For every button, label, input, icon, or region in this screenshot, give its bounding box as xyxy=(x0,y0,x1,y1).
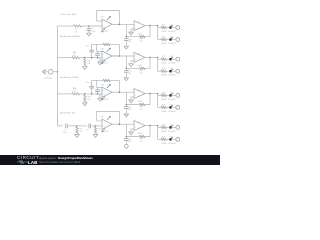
svg-text:R16: R16 xyxy=(162,37,165,39)
wire feedback rail OA5 xyxy=(92,80,120,92)
footer text xyxy=(39,156,93,160)
svg-text:-1.65/1.65V: -1.65/1.65V xyxy=(44,78,53,80)
ground (R13) xyxy=(75,135,80,138)
svg-text:R15: R15 xyxy=(162,25,165,27)
capacitor C2a feedback xyxy=(86,44,94,58)
svg-text:100kΩ: 100kΩ xyxy=(161,63,167,65)
svg-text:R21: R21 xyxy=(162,124,165,126)
node A1 xyxy=(88,25,90,27)
resistor R17 output load xyxy=(161,56,167,64)
wire output OA2 xyxy=(145,25,158,27)
svg-text:C4g: C4g xyxy=(128,139,131,141)
svg-text:R1: R1 xyxy=(75,29,77,31)
wire feed row 4 xyxy=(58,125,64,127)
ground (noninverting OA3) xyxy=(98,58,103,65)
resistor R2g feedback xyxy=(140,67,146,74)
terminal row 4b xyxy=(176,138,180,142)
svg-text:LS8: LS8 xyxy=(170,136,173,138)
node row 3 xyxy=(84,93,86,95)
capacitor C3g polarized xyxy=(124,104,131,111)
resistor R22 output load xyxy=(161,136,167,144)
svg-text:R3b: R3b xyxy=(87,97,90,99)
svg-text:LS7: LS7 xyxy=(170,124,173,126)
svg-text:+: + xyxy=(103,58,104,60)
wire xyxy=(96,125,103,127)
op-amp OA8 xyxy=(134,121,145,136)
capacitor C2g polarized xyxy=(124,68,131,75)
svg-text:−: − xyxy=(135,24,136,26)
wire feedback loop OA4 xyxy=(126,56,151,68)
svg-text:C2a: C2a xyxy=(86,46,89,48)
wire xyxy=(166,39,169,41)
wire xyxy=(96,80,98,87)
resistor R16 output load xyxy=(161,37,167,45)
svg-text:100kΩ: 100kΩ xyxy=(161,143,167,145)
resistor R3b to ground xyxy=(84,95,91,102)
speaker LS4 xyxy=(168,68,176,76)
wire xyxy=(77,125,87,127)
svg-text:1=100kΩ: 1=100kΩ xyxy=(168,143,176,145)
wire xyxy=(172,126,176,128)
svg-text:−: − xyxy=(103,54,104,56)
resistor R2b to ground xyxy=(84,59,91,66)
svg-text:+: + xyxy=(135,95,136,97)
wire output junction row 4 xyxy=(157,125,161,140)
wire xyxy=(82,25,103,27)
svg-text:1μF: 1μF xyxy=(128,141,131,143)
wire xyxy=(172,39,176,41)
node row 4 b xyxy=(95,125,97,127)
wire feedback rail OA3 xyxy=(92,44,120,56)
op-amp OA6 xyxy=(134,89,145,104)
wire xyxy=(172,94,176,96)
wire feed row 1 xyxy=(58,25,74,27)
wire xyxy=(80,57,102,59)
ground (noninverting OA4) xyxy=(129,61,134,67)
wire feedback loop OA7 xyxy=(97,112,120,125)
svg-text:+: + xyxy=(103,26,104,28)
svg-text:C2g: C2g xyxy=(128,71,131,73)
voltage source VB row 4 xyxy=(124,140,128,149)
wire output OA1 to OA2 xyxy=(112,23,134,25)
wire feedback loop OA8 xyxy=(126,124,151,136)
svg-text:0.5μF: 0.5μF xyxy=(91,31,95,33)
capacitor C1g polarized xyxy=(124,36,131,43)
svg-text:LS6: LS6 xyxy=(170,104,173,106)
svg-text:+: + xyxy=(135,127,136,129)
svg-text:100kΩ: 100kΩ xyxy=(161,75,167,77)
resistor R14 to ground xyxy=(94,127,101,134)
wire feedback loop OA2 xyxy=(126,24,151,36)
wire feedback loop OA6 xyxy=(126,92,151,104)
resistor R19 output load xyxy=(161,92,167,100)
op-amp OA4 xyxy=(134,52,145,67)
svg-text:R13: R13 xyxy=(80,128,83,130)
wire xyxy=(172,27,176,29)
resistor R4 input xyxy=(72,52,80,59)
svg-text:C7: C7 xyxy=(64,130,66,132)
wire inverting input row 3 xyxy=(97,87,102,89)
svg-text:−: − xyxy=(135,92,136,94)
svg-text:R1g: R1g xyxy=(140,38,143,40)
wire xyxy=(172,138,176,140)
svg-text:100kΩ: 100kΩ xyxy=(161,31,167,33)
speaker LS3 xyxy=(168,56,176,64)
speaker LS2 xyxy=(168,37,176,45)
speaker LS6 xyxy=(168,104,176,112)
wire output OA8 xyxy=(145,125,158,127)
svg-text:R3g: R3g xyxy=(140,106,143,108)
speaker LS8 xyxy=(168,136,176,144)
svg-text:V1: V1 xyxy=(47,76,49,78)
svg-text:100kΩ: 100kΩ xyxy=(161,99,167,101)
wire xyxy=(166,27,169,29)
voltage source V1 xyxy=(44,69,59,80)
svg-text:1=100kΩ: 1=100kΩ xyxy=(168,131,176,133)
wire xyxy=(166,94,169,96)
wire input bus xyxy=(57,26,59,126)
svg-text:1μF: 1μF xyxy=(128,41,131,43)
wire xyxy=(96,44,98,51)
svg-text:−: − xyxy=(103,23,104,25)
svg-text:R22: R22 xyxy=(162,136,165,138)
svg-text:1=100kΩ: 1=100kΩ xyxy=(168,43,176,45)
svg-text:−: − xyxy=(135,56,136,58)
svg-text:1=100kΩ: 1=100kΩ xyxy=(168,111,176,113)
wire xyxy=(172,106,176,108)
svg-text:R20: R20 xyxy=(162,104,165,106)
resistor R1g feedback xyxy=(140,35,146,42)
svg-text:0.1μF: 0.1μF xyxy=(63,132,67,134)
wire output OA7 to OA8 xyxy=(112,123,134,125)
wire xyxy=(172,70,176,72)
resistor R8 input xyxy=(72,88,80,95)
op-amp OA5 xyxy=(101,84,113,101)
wire feed row 2 xyxy=(58,57,72,59)
ground (R2b) xyxy=(83,67,88,70)
ground (C1g) xyxy=(124,41,129,50)
svg-text:R4g: R4g xyxy=(140,138,143,140)
ground (R3b) xyxy=(83,103,88,106)
capacitor C3b to inverting input xyxy=(95,88,102,95)
svg-text:−: − xyxy=(103,122,104,124)
svg-text:100kΩ: 100kΩ xyxy=(161,131,167,133)
resistor R18 output load xyxy=(161,68,167,76)
svg-text:C1: C1 xyxy=(91,28,93,30)
terminal row 2b xyxy=(176,69,180,73)
ground (C3g) xyxy=(124,108,129,117)
svg-text:+: + xyxy=(135,27,136,29)
svg-text:+: + xyxy=(103,126,104,128)
wire output OA4 xyxy=(145,56,158,58)
wire feedback loop OA1 xyxy=(97,11,120,25)
svg-text:1μF: 1μF xyxy=(128,73,131,75)
terminal row 4a xyxy=(176,126,180,130)
wire xyxy=(172,58,176,60)
wire xyxy=(80,93,102,95)
svg-text:LS2: LS2 xyxy=(170,37,173,39)
svg-text:+: + xyxy=(103,94,104,96)
resistor R20 output load xyxy=(161,104,167,112)
terminal row 3a xyxy=(176,94,180,98)
wire xyxy=(166,70,169,72)
capacitor C8 series xyxy=(86,124,95,132)
svg-text:R2g: R2g xyxy=(140,70,143,72)
svg-text:R19: R19 xyxy=(162,92,165,94)
svg-text:1=100kΩ: 1=100kΩ xyxy=(168,63,176,65)
op-amp OA7 xyxy=(101,116,113,133)
speaker LS5 xyxy=(168,92,176,100)
resistor R13 to ground xyxy=(76,127,83,134)
wire output junction row 2 xyxy=(157,57,161,72)
terminal row 3b xyxy=(176,106,180,110)
svg-text:−: − xyxy=(50,73,51,75)
wire inverting input row 2 xyxy=(97,50,102,52)
resistor R21 output load xyxy=(161,124,167,132)
ground (C1) xyxy=(87,33,92,36)
svg-text:1=100kΩ: 1=100kΩ xyxy=(168,99,176,101)
capacitor C4g polarized xyxy=(124,136,131,143)
svg-text:1=100kΩ: 1=100kΩ xyxy=(168,75,176,77)
node row 2 xyxy=(84,57,86,59)
wire output OA5 to OA6 xyxy=(112,91,134,93)
ground (noninverting OA2) xyxy=(129,29,134,35)
svg-text:R18: R18 xyxy=(162,68,165,70)
speaker LS7 xyxy=(168,124,176,132)
svg-text:R17: R17 xyxy=(162,56,165,58)
svg-text:C3g: C3g xyxy=(128,107,131,109)
op-amp OA1 xyxy=(101,16,113,33)
svg-text:C8: C8 xyxy=(86,130,88,132)
terminal row 1a xyxy=(176,26,180,30)
wire output OA6 xyxy=(145,93,158,95)
svg-text:+: + xyxy=(50,70,51,72)
ground (R14) xyxy=(93,135,98,138)
svg-text:100kΩ: 100kΩ xyxy=(161,111,167,113)
terminal row 1b xyxy=(176,38,180,42)
wire xyxy=(166,58,169,60)
resistor R3f feedback on rail xyxy=(103,79,110,83)
resistor R2f feedback on rail xyxy=(103,43,110,46)
svg-text:C3a: C3a xyxy=(86,82,89,84)
CircuitLab logo xyxy=(17,155,39,160)
ground (noninverting OA8) xyxy=(129,129,134,135)
capacitor C3a feedback xyxy=(86,80,94,94)
svg-text:+: + xyxy=(135,59,136,61)
resistor R1 1k xyxy=(74,25,82,34)
svg-text:−: − xyxy=(103,90,104,92)
ground (source V1) xyxy=(42,70,45,74)
resistor R15 output load xyxy=(161,25,167,33)
capacitor C7 series xyxy=(63,124,77,135)
capacitor C2b to inverting input xyxy=(95,51,102,58)
wire xyxy=(166,126,169,128)
ground (noninverting OA6) xyxy=(129,97,134,103)
svg-text:1=100kΩ: 1=100kΩ xyxy=(168,31,176,33)
node row 4 a xyxy=(76,125,78,127)
wire feed row 3 xyxy=(58,93,72,95)
svg-text:R2b: R2b xyxy=(87,60,90,62)
svg-text:1μF: 1μF xyxy=(128,109,131,111)
resistor R4g feedback xyxy=(140,135,146,142)
svg-text:LS3: LS3 xyxy=(170,56,173,58)
wire output junction row 3 xyxy=(157,93,161,108)
terminal row 2a xyxy=(176,57,180,61)
wire output OA3 to OA4 xyxy=(112,55,134,57)
svg-text:100kΩ: 100kΩ xyxy=(161,43,167,45)
ground (C2g) xyxy=(124,72,129,81)
svg-text:LS1: LS1 xyxy=(170,25,173,27)
capacitor C1 0.5uF xyxy=(87,26,96,33)
resistor R3g feedback xyxy=(140,103,146,110)
svg-text:LS5: LS5 xyxy=(170,92,173,94)
svg-text:−: − xyxy=(135,124,136,126)
speaker LS1 xyxy=(168,25,176,33)
wire xyxy=(166,138,169,140)
svg-text:LS4: LS4 xyxy=(170,68,173,70)
wire output junction row 1 xyxy=(157,25,161,40)
op-amp OA3 xyxy=(101,47,113,64)
wire xyxy=(166,106,169,108)
op-amp OA2 xyxy=(134,21,145,36)
svg-text:C1g: C1g xyxy=(128,39,131,41)
ground (noninverting OA5) xyxy=(98,94,103,101)
svg-text:R14: R14 xyxy=(98,128,101,130)
